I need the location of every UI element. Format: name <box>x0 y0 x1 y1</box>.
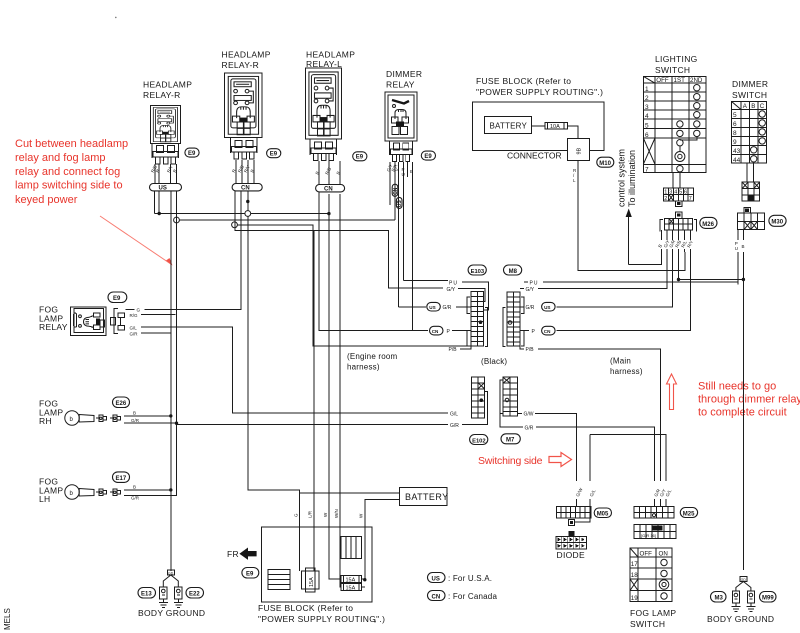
wire G/R from M7 to M25 <box>503 427 655 507</box>
svg-text:(Main: (Main <box>610 357 631 366</box>
svg-text:SWITCH: SWITCH <box>630 619 665 629</box>
fog lamp LH symbol <box>65 485 79 499</box>
illumination arrow <box>628 216 630 265</box>
svg-text:FR: FR <box>227 549 239 559</box>
svg-text:G/R: G/R <box>525 425 534 431</box>
svg-text:OFF: OFF <box>656 77 669 84</box>
wire B vertical (ground run) <box>170 191 172 571</box>
E9 pill (relay L) <box>353 152 367 161</box>
svg-text:6: 6 <box>645 132 649 139</box>
fog relay pin G <box>126 308 135 310</box>
svg-text:L/R: L/R <box>308 510 313 518</box>
E9 pill (fog relay) <box>108 292 127 303</box>
M30 pill <box>769 215 786 226</box>
svg-text:LH: LH <box>39 494 50 504</box>
M7 pill <box>501 434 520 444</box>
headlamp relay-L connector <box>311 142 336 161</box>
annotation leader arrow <box>100 216 173 266</box>
svg-text:B: B <box>751 103 755 110</box>
svg-text:1ST: 1ST <box>674 77 686 84</box>
wires relay-R US to oval <box>155 164 177 184</box>
M7 bracket <box>500 380 503 427</box>
svg-text:US: US <box>159 186 167 192</box>
svg-text:PU: PU <box>530 280 539 286</box>
headlamp relay-R CN connector <box>232 141 257 160</box>
svg-text:4: 4 <box>674 190 677 196</box>
wire G/R US left <box>399 306 472 308</box>
fog relay pin R/G <box>141 314 176 316</box>
svg-text:G/R: G/R <box>131 418 140 423</box>
svg-text:GD: GD <box>741 578 747 582</box>
svg-text:CN: CN <box>241 186 250 192</box>
svg-text:harness): harness) <box>347 363 380 372</box>
US pill rotated (dimmer) <box>396 197 402 208</box>
wire G/R RH to E102 <box>177 424 449 426</box>
wire P/B left label <box>445 345 447 347</box>
svg-text:M05: M05 <box>597 511 609 517</box>
svg-text:7: 7 <box>645 167 649 174</box>
fuse 10A <box>531 125 545 127</box>
fog RH pin B <box>124 415 171 417</box>
svg-text:to complete circuit: to complete circuit <box>698 406 787 418</box>
svg-text:18: 18 <box>631 572 638 579</box>
svg-text:DIMMER: DIMMER <box>732 79 768 89</box>
M7 grid <box>503 377 517 416</box>
fog relay pin G/L <box>141 327 448 413</box>
M25 grid <box>634 507 674 518</box>
svg-text:CONNECTOR: CONNECTOR <box>507 151 562 161</box>
svg-text:G/R: G/R <box>450 423 459 429</box>
fog lamp relay box <box>71 307 106 336</box>
M10 pill <box>597 157 614 167</box>
stripes box <box>341 537 361 559</box>
svg-text:US: US <box>544 305 550 310</box>
headlamp relay-R US box <box>150 105 180 143</box>
ground terminal E13 <box>159 587 168 608</box>
svg-text:keyed power: keyed power <box>15 194 78 206</box>
annotation note top-left <box>15 138 128 206</box>
svg-text:Switching side: Switching side <box>478 455 543 467</box>
junction dot <box>158 212 161 215</box>
battery wire lower to fuses <box>365 500 400 580</box>
svg-text:To illumination: To illumination <box>627 150 637 207</box>
wires dimmer relay down <box>390 162 412 331</box>
svg-text:PU: PU <box>449 280 458 286</box>
wires dimmer switch to grid <box>747 163 754 182</box>
M26 pill <box>700 217 717 228</box>
headlamp relay-R CN box <box>225 73 263 138</box>
wire bus y213.5 US to relay-L <box>155 213 329 215</box>
svg-text:LIGHTING: LIGHTING <box>655 54 698 64</box>
svg-text:E9: E9 <box>113 296 121 302</box>
headlamp relay-R US connector <box>153 146 178 165</box>
dimmer switch upper grid <box>742 182 759 201</box>
fog lamp RH symbol <box>65 411 79 425</box>
M26 grid <box>675 212 682 219</box>
svg-text:P/B: P/B <box>449 347 458 353</box>
E26 pill <box>113 397 130 408</box>
wire G/Y right to M26w2 <box>520 252 667 289</box>
fuse block outline <box>472 102 604 150</box>
svg-text:B: B <box>133 485 136 490</box>
M26 wires down <box>662 230 691 240</box>
svg-text:HEADLAMP: HEADLAMP <box>143 80 192 90</box>
M25 lower grid <box>634 525 676 539</box>
wires relay-R CN to oval <box>236 160 254 184</box>
svg-text:4: 4 <box>645 113 649 120</box>
wire relay2 w2 to fog relay G <box>145 191 241 309</box>
svg-text:B: B <box>742 244 745 249</box>
E103 grid <box>471 291 483 346</box>
wire L/R branch down to fuse block <box>313 231 315 572</box>
faint scan speck <box>374 621 376 623</box>
svg-text:M8: M8 <box>509 269 518 275</box>
svg-text:control system: control system <box>617 149 627 207</box>
E9 pill bottom <box>242 568 259 579</box>
svg-text:RELAY: RELAY <box>386 80 415 90</box>
svg-text:E22: E22 <box>189 592 200 598</box>
CN oval (relay R) <box>232 184 262 191</box>
svg-text:: For U.S.A.: : For U.S.A. <box>448 574 492 583</box>
svg-text:CN: CN <box>544 329 551 334</box>
svg-text:E102: E102 <box>472 438 486 444</box>
svg-text:17: 17 <box>631 561 638 568</box>
svg-text:6: 6 <box>684 190 687 196</box>
svg-text:CN: CN <box>324 187 333 193</box>
svg-text:M3: M3 <box>715 596 724 602</box>
svg-text:E9: E9 <box>424 154 432 160</box>
E102 grid <box>472 377 485 418</box>
wire relay-L w3 W/N down to fuse block <box>340 194 341 587</box>
svg-text:3: 3 <box>645 104 649 111</box>
diode box <box>556 536 586 549</box>
E9 pill (relay R US) <box>185 148 199 157</box>
lighting switch contact circles 2ND <box>675 85 700 172</box>
GD mark <box>167 570 174 575</box>
wire G/R vertical (fog feed) <box>128 191 177 496</box>
fog RH pin G/R <box>124 422 177 424</box>
wire R/L down from connector <box>578 161 685 271</box>
svg-text:BATTERY: BATTERY <box>405 492 448 502</box>
svg-text:RELAY-L: RELAY-L <box>306 59 342 69</box>
M30 wires down <box>738 230 744 240</box>
svg-text:U: U <box>735 246 738 251</box>
svg-text:M99: M99 <box>762 596 774 602</box>
svg-text:RELAY-R: RELAY-R <box>222 60 260 70</box>
M05 pill <box>594 508 611 518</box>
svg-text:(Black): (Black) <box>481 357 507 366</box>
diode tab <box>568 520 574 526</box>
svg-text:relay and connect fog: relay and connect fog <box>15 166 120 178</box>
svg-text:[G/R 16]: [G/R 16] <box>641 533 656 538</box>
svg-text:G/Y: G/Y <box>447 287 456 293</box>
E103 side brackets <box>467 297 487 347</box>
US oval (relay R) <box>150 184 182 191</box>
wire G/L jog M5 to M25 <box>575 435 666 522</box>
svg-text:E9: E9 <box>356 155 364 161</box>
E103 pill <box>468 265 486 275</box>
svg-text:6: 6 <box>733 121 737 128</box>
wire P CN right to M26w6 <box>520 252 691 331</box>
svg-text:44: 44 <box>733 157 741 164</box>
svg-text:G/L: G/L <box>450 411 458 417</box>
wire relay-R US left pins down <box>155 191 160 214</box>
M8 pill <box>504 265 522 275</box>
vertical fuse 15A <box>301 568 319 592</box>
svg-text:3: 3 <box>669 190 672 196</box>
annotation still needs <box>698 380 800 418</box>
svg-text:FUSE BLOCK (Refer to: FUSE BLOCK (Refer to <box>476 76 571 86</box>
svg-text:G/Y: G/Y <box>526 287 535 293</box>
svg-text:15A: 15A <box>346 578 356 584</box>
svg-text:G: G <box>294 513 299 517</box>
svg-text:E9: E9 <box>246 572 254 578</box>
svg-text:E103: E103 <box>471 269 485 275</box>
svg-text:BODY GROUND: BODY GROUND <box>707 614 774 624</box>
connector box 9B <box>567 138 589 160</box>
svg-text:M25: M25 <box>683 511 695 517</box>
M30 grid <box>737 208 764 230</box>
dimmer relay box <box>385 92 417 141</box>
fuse 15A horizontal 1 <box>341 576 361 583</box>
svg-text:US: US <box>432 576 440 582</box>
svg-text:M10: M10 <box>599 161 611 167</box>
wire M26w1 to illumination <box>629 252 662 265</box>
fog relay pin G/R <box>141 332 171 334</box>
svg-text:M30: M30 <box>771 220 783 226</box>
svg-text:Cut between headlamp: Cut between headlamp <box>15 138 128 150</box>
svg-text:9: 9 <box>733 139 737 146</box>
svg-text:MELS: MELS <box>3 608 12 630</box>
svg-text:E26: E26 <box>116 401 127 407</box>
svg-text:G: G <box>137 308 141 313</box>
svg-text:relay and fog lamp: relay and fog lamp <box>15 152 106 164</box>
svg-text:GD: GD <box>168 571 174 575</box>
svg-text:G/R: G/R <box>526 305 535 311</box>
svg-text:SWITCH: SWITCH <box>732 90 767 100</box>
wire PU right to M30 <box>524 282 738 284</box>
CN oval (relay L) <box>316 185 345 192</box>
ground fork <box>163 575 178 587</box>
svg-text:FUSE BLOCK (Refer to: FUSE BLOCK (Refer to <box>258 603 353 613</box>
wire relay2 w3 G down to fuse block <box>248 191 300 571</box>
M3 pill <box>711 592 727 603</box>
CN pill rotated (dimmer) <box>392 184 398 196</box>
svg-text:15A: 15A <box>309 577 315 587</box>
svg-text:M7: M7 <box>506 438 515 444</box>
wire bus y225 chain to P/B <box>237 225 471 346</box>
svg-text:FOG LAMP: FOG LAMP <box>630 608 676 618</box>
svg-text:SWITCH: SWITCH <box>655 65 690 75</box>
M8 grid <box>507 292 520 346</box>
E13 pill <box>138 588 156 599</box>
svg-text:1: 1 <box>645 86 649 93</box>
M5 grid <box>556 507 591 518</box>
fog LH pin G/R <box>124 495 177 497</box>
battery box top <box>485 117 532 134</box>
wire G/R US right to M26w3 <box>520 252 673 307</box>
svg-text:U: U <box>402 172 405 177</box>
svg-text:2: 2 <box>645 95 649 102</box>
svg-text:BATTERY: BATTERY <box>490 122 528 131</box>
wire G/Y left <box>443 288 485 302</box>
svg-text:5: 5 <box>733 112 737 119</box>
svg-text:"POWER SUPPLY ROUTING".): "POWER SUPPLY ROUTING".) <box>258 614 385 624</box>
M25 pill <box>680 508 697 518</box>
svg-text:5: 5 <box>679 190 682 196</box>
svg-text:BODY GROUND: BODY GROUND <box>138 608 205 618</box>
svg-text:G/L: G/L <box>130 325 138 330</box>
svg-text:R/G: R/G <box>130 313 139 318</box>
svg-text:E17: E17 <box>116 476 127 482</box>
hop circle over CN wire <box>245 211 251 217</box>
svg-text:DIODE: DIODE <box>557 550 585 560</box>
svg-text:RELAY: RELAY <box>39 322 68 332</box>
wire G/W from M7 to M5 <box>517 413 576 506</box>
svg-text:W/N: W/N <box>334 509 339 518</box>
M8 side brackets <box>503 297 524 347</box>
wire bus y220 to dimmer CN <box>179 219 395 221</box>
lighting switch connector grid upper <box>664 188 694 201</box>
wire P/B right to M25 <box>520 346 660 507</box>
dimmer relay connector <box>390 143 411 162</box>
svg-text:G/R: G/R <box>130 331 139 336</box>
svg-text:G/W: G/W <box>524 412 534 418</box>
svg-text:: For Canada: : For Canada <box>448 592 497 601</box>
svg-text:US: US <box>429 305 435 310</box>
svg-text:B: B <box>410 169 413 174</box>
wire B long down to body ground right <box>742 280 744 571</box>
svg-text:E13: E13 <box>141 592 152 598</box>
svg-text:B: B <box>133 411 136 416</box>
svg-text:G/R: G/R <box>131 496 140 501</box>
wire fuse to connector <box>567 126 577 138</box>
svg-text:Still needs to go: Still needs to go <box>698 380 776 392</box>
svg-text:DIMMER: DIMMER <box>386 69 422 79</box>
svg-text:10A: 10A <box>550 124 560 130</box>
svg-text:9B: 9B <box>577 147 583 154</box>
svg-text:CN: CN <box>432 594 441 600</box>
dots on fog verticals <box>169 414 172 417</box>
E9 pill (dimmer) <box>421 151 435 160</box>
svg-text:OFF: OFF <box>640 551 653 558</box>
svg-text:43: 43 <box>733 148 741 155</box>
svg-text:US: US <box>397 200 403 208</box>
svg-text:through dimmer relay: through dimmer relay <box>698 394 800 406</box>
junction dot relay-L <box>327 212 330 215</box>
wire PU left <box>403 281 488 310</box>
E102 bracket to G/R <box>462 391 488 424</box>
svg-text:CN: CN <box>393 187 399 195</box>
svg-text:8: 8 <box>733 130 737 137</box>
fuse 15A horizontal 2 <box>341 583 361 590</box>
E102 pill <box>470 435 488 445</box>
svg-text:M26: M26 <box>702 222 714 228</box>
wire relay2 w1 to G/Y chain <box>235 191 443 288</box>
annotation switching side <box>478 453 572 468</box>
fog lamp relay connector <box>114 308 118 333</box>
wires switch to connector grid <box>673 173 680 188</box>
svg-text:C: C <box>760 103 765 110</box>
svg-text:5: 5 <box>645 123 649 130</box>
svg-text:RH: RH <box>39 416 52 426</box>
svg-text:7: 7 <box>689 196 692 202</box>
svg-text:2ND: 2ND <box>690 77 703 84</box>
svg-text:G/R: G/R <box>443 305 452 311</box>
svg-text:P/B: P/B <box>526 347 535 353</box>
svg-text:E9: E9 <box>188 151 196 157</box>
fuse rows box <box>268 569 290 589</box>
svg-text:CN: CN <box>432 329 439 334</box>
fog LH pin B <box>124 489 171 491</box>
wire P CN left <box>319 192 471 331</box>
svg-text:"POWER SUPPLY ROUTING".): "POWER SUPPLY ROUTING".) <box>476 87 603 97</box>
svg-text:E9: E9 <box>270 152 278 158</box>
svg-text:ON: ON <box>659 551 668 558</box>
E9 pill (relay R CN) <box>267 149 281 158</box>
wire M26w4 B to ground bus <box>679 252 744 280</box>
E22 pill <box>186 588 204 599</box>
svg-text:RELAY-R: RELAY-R <box>143 90 181 100</box>
wires relay-L to oval <box>319 161 340 185</box>
ground terminal E22 <box>174 587 183 608</box>
svg-text:HEADLAMP: HEADLAMP <box>222 50 271 60</box>
headlamp relay-L box <box>305 68 341 139</box>
svg-text:harness): harness) <box>610 367 643 376</box>
svg-text:1: 1 <box>664 190 667 196</box>
svg-text:(Engine room: (Engine room <box>347 352 398 361</box>
annotation red up-arrow <box>667 374 677 410</box>
svg-text:2: 2 <box>664 196 667 202</box>
svg-text:lamp switching side to: lamp switching side to <box>15 180 123 192</box>
wire relay-L w2 W down to fuse block <box>329 194 341 579</box>
M99 pill <box>760 592 777 603</box>
svg-text:19: 19 <box>631 595 638 602</box>
E17 pill <box>113 472 130 483</box>
svg-text:15A: 15A <box>346 585 356 591</box>
battery wire upper to G junction <box>300 492 400 494</box>
